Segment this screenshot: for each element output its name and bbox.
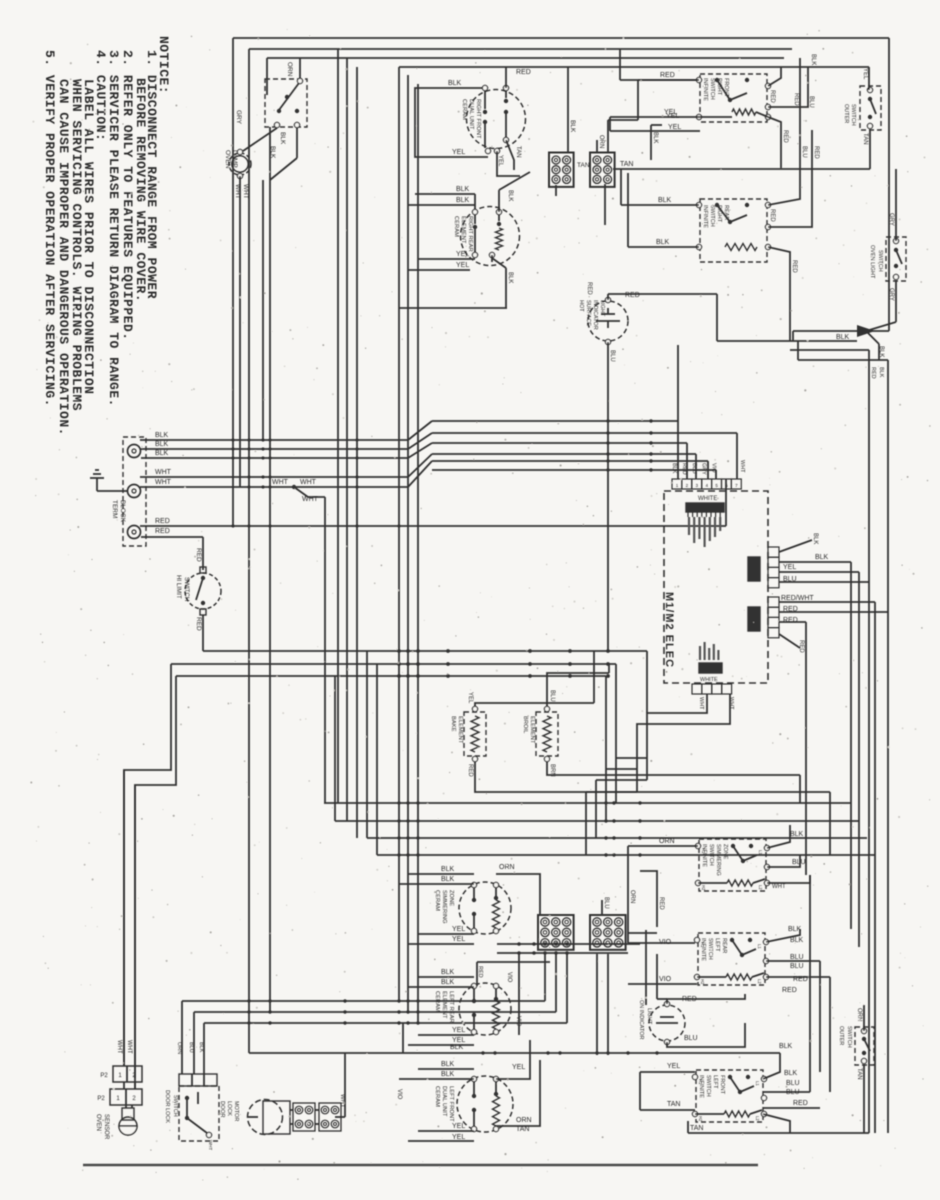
svg-text:WHT: WHT	[116, 1040, 122, 1054]
svg-text:BLK: BLK	[456, 197, 470, 204]
svg-text:MOTOR: MOTOR	[233, 1101, 239, 1121]
svg-text:REAR: REAR	[721, 938, 727, 953]
svg-text:WHT: WHT	[339, 1094, 345, 1108]
svg-text:LEFT: LEFT	[712, 1075, 718, 1089]
svg-text:BLU: BLU	[792, 859, 806, 866]
svg-text:WHT: WHT	[772, 884, 786, 890]
svg-text:WHT: WHT	[126, 1040, 132, 1054]
svg-text:BLU: BLU	[790, 954, 804, 961]
svg-text:CERAM: CERAM	[461, 99, 467, 120]
svg-text:WHITE: WHITE	[698, 496, 717, 502]
svg-text:BLK: BLK	[652, 132, 658, 143]
svg-text:SENSOR: SENSOR	[103, 1114, 109, 1140]
svg-text:CAN CAUSE IMPROPER AND DANGERO: CAN CAUSE IMPROPER AND DANGEROUS OPERATI…	[56, 79, 71, 436]
svg-text:ELEMENT: ELEMENT	[460, 216, 466, 244]
svg-text:HOT: HOT	[578, 300, 584, 312]
svg-text:H1: H1	[700, 942, 705, 948]
svg-text:VIO: VIO	[396, 1089, 402, 1100]
svg-text:YEL: YEL	[456, 251, 469, 258]
svg-text:RED: RED	[793, 93, 799, 106]
svg-text:ON INDICATOR: ON INDICATOR	[638, 1000, 644, 1040]
svg-text:BLK: BLK	[448, 80, 462, 87]
svg-text:SWITCH: SWITCH	[709, 205, 715, 227]
svg-text:YEL: YEL	[467, 692, 473, 704]
svg-text:RED: RED	[793, 976, 808, 983]
svg-text:TAN: TAN	[690, 1125, 703, 1132]
svg-text:L2: L2	[758, 885, 763, 890]
svg-text:OVEN: OVEN	[224, 150, 231, 169]
svg-text:INFINITE: INFINITE	[702, 205, 708, 228]
svg-text:BLK: BLK	[784, 1070, 798, 1077]
svg-text:BLU: BLU	[691, 463, 697, 474]
svg-text:P2: P2	[100, 1073, 108, 1079]
svg-text:LIGHT: LIGHT	[646, 1008, 652, 1025]
svg-text:H1: H1	[701, 848, 706, 854]
svg-text:BLK: BLK	[836, 334, 850, 341]
svg-text:DUAL UNIT: DUAL UNIT	[468, 99, 474, 130]
svg-text:OVEN LIGHT: OVEN LIGHT	[869, 245, 875, 279]
svg-text:SWITCH: SWITCH	[705, 1075, 711, 1097]
svg-text:RED: RED	[155, 528, 170, 535]
svg-text:YEL: YEL	[452, 1037, 465, 1044]
svg-text:RED: RED	[516, 69, 531, 76]
svg-text:BAKE: BAKE	[450, 716, 456, 732]
svg-text:BLU: BLU	[790, 963, 804, 970]
svg-text:VIO: VIO	[515, 1016, 521, 1027]
svg-text:SIMMERING: SIMMERING	[441, 890, 447, 924]
svg-text:BLU: BLU	[609, 350, 615, 362]
svg-text:YEL: YEL	[452, 1134, 465, 1141]
svg-text:WHT: WHT	[739, 460, 745, 473]
svg-text:RED: RED	[782, 130, 788, 143]
svg-text:TAN: TAN	[577, 162, 590, 169]
svg-text:BLK: BLK	[507, 272, 513, 283]
svg-text:H2: H2	[700, 979, 705, 985]
svg-text:TAN: TAN	[667, 1101, 680, 1108]
svg-text:GRY: GRY	[701, 463, 707, 475]
svg-text:LEFT: LEFT	[714, 938, 720, 952]
svg-text:OUTER: OUTER	[838, 1026, 844, 1045]
svg-text:BLK: BLK	[441, 1061, 455, 1068]
svg-text:L1: L1	[758, 850, 763, 855]
svg-text:BLK: BLK	[269, 146, 276, 159]
svg-text:L2: L2	[755, 1116, 760, 1121]
svg-text:TAN: TAN	[862, 133, 868, 145]
svg-text:TAN: TAN	[516, 1126, 529, 1133]
svg-text:BLK: BLK	[812, 533, 818, 544]
svg-text:YEL: YEL	[512, 1064, 525, 1071]
svg-text:BLK: BLK	[878, 367, 884, 378]
svg-text:DOOR: DOOR	[219, 1101, 225, 1118]
svg-text:RED: RED	[783, 606, 798, 613]
svg-text:VIO: VIO	[506, 972, 512, 983]
svg-text:RED: RED	[660, 72, 675, 79]
svg-text:RED: RED	[769, 90, 775, 103]
svg-text:ELEMENT: ELEMENT	[441, 991, 447, 1019]
svg-text:SIMMERING: SIMMERING	[715, 844, 721, 876]
svg-text:VIO: VIO	[711, 463, 717, 473]
svg-text:RIGHT REAR: RIGHT REAR	[467, 216, 473, 252]
svg-text:FRONT: FRONT	[719, 1075, 725, 1095]
svg-text:BLU: BLU	[549, 690, 555, 702]
svg-text:RED: RED	[870, 367, 876, 379]
svg-text:RED: RED	[477, 966, 483, 978]
svg-text:GRY: GRY	[888, 213, 894, 226]
svg-text:BLK: BLK	[441, 969, 455, 976]
svg-text:TAN: TAN	[620, 161, 633, 168]
svg-text:ORN: ORN	[659, 838, 675, 845]
svg-text:BLK: BLK	[507, 190, 513, 201]
svg-text:ELEMENT: ELEMENT	[529, 716, 535, 744]
svg-text:YEL: YEL	[452, 149, 465, 156]
svg-text:RED: RED	[813, 146, 819, 159]
svg-text:RED: RED	[791, 260, 797, 273]
svg-text:BLK: BLK	[815, 554, 829, 561]
svg-text:RED: RED	[782, 987, 797, 994]
svg-text:2. REFER ONLY TO FEATURES EQUI: 2. REFER ONLY TO FEATURES EQUIPPED.	[120, 50, 135, 341]
svg-text:VIO: VIO	[659, 976, 672, 983]
svg-text:CERAM: CERAM	[434, 991, 440, 1012]
svg-text:RED: RED	[467, 764, 473, 777]
svg-text:YEL: YEL	[862, 68, 868, 80]
svg-text:BLK: BLK	[878, 346, 884, 357]
svg-text:BLK: BLK	[441, 876, 455, 883]
svg-text:SWITCH: SWITCH	[183, 577, 190, 601]
svg-text:TAN: TAN	[856, 1068, 862, 1080]
svg-text:RED: RED	[769, 209, 775, 222]
svg-text:BLK: BLK	[279, 132, 286, 145]
svg-text:RED: RED	[658, 897, 664, 910]
svg-text:BLK: BLK	[656, 239, 670, 246]
svg-text:WHT: WHT	[155, 469, 172, 476]
svg-text:BLOCK: BLOCK	[119, 500, 126, 523]
svg-text:H2: H2	[698, 1116, 703, 1122]
svg-text:BLK: BLK	[198, 1042, 204, 1053]
svg-text:YEL: YEL	[783, 564, 796, 571]
svg-text:YEL: YEL	[667, 1063, 680, 1070]
svg-text:H1: H1	[698, 1079, 703, 1085]
svg-text:RED: RED	[783, 617, 798, 624]
svg-text:SWITCH: SWITCH	[877, 250, 883, 272]
svg-text:BROIL: BROIL	[522, 716, 528, 734]
svg-text:H2: H2	[701, 885, 706, 891]
svg-text:TAN: TAN	[515, 146, 521, 158]
svg-text:LEFT FRONT: LEFT FRONT	[448, 1086, 454, 1122]
svg-text:BLK: BLK	[155, 441, 169, 448]
svg-text:CERAM: CERAM	[434, 890, 440, 911]
svg-text:ORN: ORN	[629, 890, 635, 903]
svg-text:OUTER: OUTER	[843, 104, 849, 123]
svg-text:ELEMENT: ELEMENT	[457, 716, 463, 744]
svg-text:RED: RED	[798, 640, 804, 653]
svg-text:DOOR LOCK: DOOR LOCK	[164, 1090, 170, 1123]
svg-text:RED: RED	[195, 548, 202, 562]
svg-text:BLK: BLK	[671, 463, 677, 474]
svg-text:LEFT REAR: LEFT REAR	[448, 991, 454, 1023]
svg-text:WHT: WHT	[272, 479, 289, 486]
svg-text:WHT: WHT	[208, 1140, 213, 1150]
svg-text:BLU: BLU	[801, 146, 807, 158]
svg-text:WHT: WHT	[242, 184, 249, 199]
svg-text:RED: RED	[681, 463, 687, 475]
svg-text:BLK: BLK	[155, 432, 169, 439]
svg-text:P2: P2	[97, 1096, 105, 1102]
svg-text:ORN: ORN	[176, 1042, 182, 1054]
svg-text:M1/M2 ELEC: M1/M2 ELEC	[663, 592, 675, 668]
svg-text:ORN: ORN	[598, 135, 604, 148]
svg-text:LOCK: LOCK	[226, 1101, 232, 1116]
svg-text:5. VERIFY PROPER OPERATION AFT: 5. VERIFY PROPER OPERATION AFTER SERVICI…	[42, 50, 57, 407]
svg-text:BLK: BLK	[441, 979, 455, 986]
svg-text:BLU: BLU	[684, 1035, 698, 1042]
svg-text:VIO: VIO	[659, 939, 672, 946]
svg-text:ZONE: ZONE	[722, 844, 728, 860]
svg-text:DUAL UNIT: DUAL UNIT	[441, 1086, 447, 1117]
svg-text:SWITCH: SWITCH	[709, 78, 715, 100]
svg-text:WHT: WHT	[728, 697, 734, 710]
svg-text:BLK: BLK	[810, 54, 816, 65]
svg-text:LAMP: LAMP	[231, 150, 238, 168]
svg-text:BLK: BLK	[155, 450, 169, 457]
svg-text:BLU: BLU	[808, 96, 814, 108]
svg-text:YEL: YEL	[497, 155, 503, 167]
svg-text:BLK: BLK	[441, 866, 455, 873]
svg-text:WHITE: WHITE	[700, 677, 718, 683]
svg-text:YEL: YEL	[452, 936, 465, 943]
svg-text:ORN: ORN	[499, 864, 515, 871]
svg-text:SWITCH: SWITCH	[846, 1026, 852, 1048]
svg-text:BLU: BLU	[188, 1042, 194, 1053]
svg-text:ORN: ORN	[286, 62, 293, 77]
svg-text:BLU: BLU	[783, 576, 797, 583]
svg-text:CERAM: CERAM	[453, 216, 459, 237]
svg-text:BLK: BLK	[790, 831, 804, 838]
svg-text:SWITCH: SWITCH	[707, 938, 713, 960]
svg-text:RED: RED	[195, 617, 202, 631]
svg-text:LIGHT: LIGHT	[599, 300, 605, 317]
svg-text:GRY: GRY	[235, 110, 242, 125]
svg-text:SWITCH: SWITCH	[850, 104, 856, 126]
svg-text:GRY: GRY	[888, 288, 894, 301]
svg-text:BLK: BLK	[779, 1043, 793, 1050]
svg-text:RED: RED	[155, 518, 170, 525]
svg-text:WHT: WHT	[698, 697, 704, 710]
svg-text:INDICATOR: INDICATOR	[592, 300, 598, 330]
svg-text:YEL: YEL	[452, 1123, 465, 1130]
svg-text:YEL: YEL	[456, 262, 469, 269]
svg-text:L1: L1	[757, 944, 762, 949]
svg-text:WHT: WHT	[234, 184, 241, 199]
svg-text:CERAM: CERAM	[434, 1086, 440, 1107]
svg-text:BLU: BLU	[786, 1080, 800, 1087]
svg-text:SWITCH: SWITCH	[172, 1095, 178, 1117]
svg-text:RIGHT FRONT: RIGHT FRONT	[475, 99, 481, 139]
svg-text:YEL: YEL	[452, 926, 465, 933]
svg-text:WHT: WHT	[155, 479, 172, 486]
svg-text:BLK: BLK	[441, 1071, 455, 1078]
svg-text:HI LIMIT: HI LIMIT	[175, 575, 182, 599]
svg-text:RED: RED	[793, 1100, 808, 1107]
svg-text:BLU: BLU	[786, 1089, 800, 1096]
svg-text:BLK: BLK	[658, 197, 672, 204]
svg-text:BLK: BLK	[788, 926, 802, 933]
svg-text:SWITCH: SWITCH	[708, 844, 714, 866]
svg-text:BLK: BLK	[790, 937, 804, 944]
svg-text:L2: L2	[757, 979, 762, 984]
svg-text:BLK: BLK	[569, 120, 576, 133]
svg-text:BLK: BLK	[456, 186, 470, 193]
svg-text:OVEN: OVEN	[95, 1114, 101, 1131]
svg-text:RED/WHT: RED/WHT	[781, 595, 814, 602]
svg-text:INFINITE: INFINITE	[702, 78, 708, 101]
svg-text:TERM: TERM	[111, 500, 118, 518]
svg-text:ORN: ORN	[516, 1117, 532, 1124]
svg-text:YEL: YEL	[664, 109, 677, 116]
svg-text:RED: RED	[625, 292, 640, 299]
svg-text:YEL: YEL	[668, 124, 681, 131]
svg-text:YEL: YEL	[452, 1027, 465, 1034]
svg-text:L1: L1	[755, 1081, 760, 1086]
svg-text:ZONE: ZONE	[448, 890, 454, 906]
svg-text:WHT: WHT	[300, 479, 317, 486]
svg-text:RED: RED	[586, 282, 592, 295]
svg-text:BLU: BLU	[603, 897, 609, 909]
